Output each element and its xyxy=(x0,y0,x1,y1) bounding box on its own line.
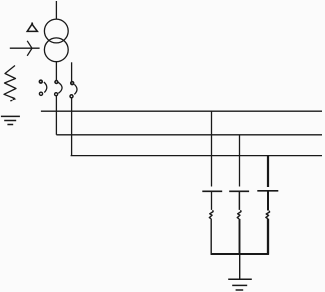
breaker Q1 xyxy=(39,80,46,95)
reactor L3 xyxy=(266,211,270,219)
wire: dropper from bus A to C1 xyxy=(211,111,213,186)
wire: C2 to reactor L2 xyxy=(238,191,240,210)
grounding resistor R0 (zigzag) xyxy=(4,66,16,101)
bus B xyxy=(56,134,322,136)
wire: stub to breaker Q3 xyxy=(71,62,73,81)
incoming supply arrow xyxy=(10,41,40,56)
delta winding symbol xyxy=(27,23,37,32)
breaker Q3 xyxy=(70,82,77,98)
wire: ground lead xyxy=(239,254,241,279)
bottom connector wire xyxy=(211,253,269,255)
wire: breaker Q2 to bus B xyxy=(55,96,57,135)
wire: C3 to reactor L3 xyxy=(267,191,269,211)
ground (capacitor bank) xyxy=(228,279,252,290)
wire: dropper from bus C to C3 xyxy=(267,156,269,187)
wire: breaker Q3 to bus C xyxy=(71,98,73,156)
wire: C1 to reactor L1 xyxy=(211,191,213,210)
reactor L1 xyxy=(209,210,213,219)
wire: L1 to bottom connector xyxy=(210,219,212,255)
breaker Q2 xyxy=(55,81,62,96)
reactor L2 xyxy=(237,210,241,219)
transformer T1 secondary winding xyxy=(44,38,68,62)
capacitor C2 plate xyxy=(229,190,249,192)
wire: transformer secondary to breaker Q2 xyxy=(55,62,57,81)
wire: L3 to bottom connector xyxy=(267,219,269,255)
capacitor C3 plate xyxy=(257,190,278,192)
ground (left, neutral earthing) xyxy=(1,116,20,124)
capacitor C1 plate xyxy=(202,190,222,192)
transformer T1 primary winding xyxy=(44,19,68,43)
bus C xyxy=(71,155,322,157)
wire: incoming HV feeder xyxy=(55,1,57,20)
bus A xyxy=(41,110,322,112)
wire: dropper from bus B to C2 xyxy=(239,135,241,187)
wire: L2 to bottom connector xyxy=(239,219,241,255)
